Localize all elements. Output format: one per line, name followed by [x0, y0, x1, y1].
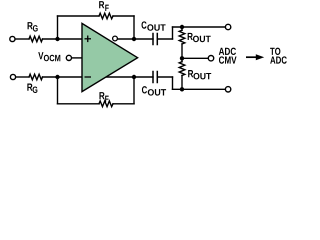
label ADC CMV	[219, 48, 237, 64]
label ROUT top	[188, 33, 211, 42]
wire	[43, 76, 83, 78]
wire	[181, 44, 183, 58]
wire bottom right rail	[173, 88, 226, 90]
wire to CMV terminal	[182, 57, 208, 59]
label VOCM	[38, 52, 60, 61]
output inversion bubble	[113, 36, 118, 41]
wire riser down	[172, 77, 174, 89]
wire top rail left	[58, 15, 100, 17]
input terminal bottom	[10, 74, 15, 79]
label RG bottom	[27, 84, 37, 93]
wire (junction to bottom rail)	[57, 77, 59, 104]
capacitor COUT bottom	[152, 72, 154, 83]
wire top right rail	[173, 26, 226, 28]
label RF bottom	[99, 92, 108, 102]
wire (top rail to output node)	[133, 16, 135, 39]
op-amp U1	[82, 23, 138, 91]
resistor RG bottom	[29, 74, 43, 80]
label RF top	[99, 1, 109, 11]
wire	[181, 58, 183, 61]
resistor RF bottom	[99, 101, 113, 107]
capacitor COUT top	[152, 34, 154, 45]
wire (junction to top rail)	[57, 16, 59, 39]
wire riser up	[172, 27, 174, 39]
node: -input/feedback junction bottom	[55, 75, 59, 79]
wire	[181, 76, 183, 90]
node: +input/feedback junction top	[55, 37, 59, 41]
node: top right rail	[180, 25, 184, 29]
ADC CMV terminal	[208, 56, 213, 61]
wire	[16, 76, 29, 78]
wire	[15, 38, 29, 40]
wire	[158, 38, 173, 40]
wire	[158, 76, 173, 78]
output terminal top right	[225, 24, 230, 29]
arrow to ADC	[246, 56, 256, 58]
pin -	[85, 76, 92, 78]
wire bottom rail left	[58, 103, 100, 105]
node: bottom right rail	[180, 87, 184, 91]
wire output top	[117, 38, 153, 40]
wire output bottom	[106, 76, 153, 78]
label COUT top	[142, 21, 166, 30]
VOCM terminal	[66, 55, 71, 60]
label ROUT bottom	[188, 70, 211, 79]
pin +	[85, 38, 92, 40]
wire bottom rail right	[113, 103, 134, 105]
resistor RF top	[99, 13, 113, 19]
resistor RG top	[29, 36, 43, 42]
wire	[43, 38, 83, 40]
wire top rail right	[113, 15, 134, 17]
wire (output node to bottom rail)	[133, 77, 135, 104]
label RG top	[28, 22, 38, 31]
input terminal top	[10, 36, 15, 41]
resistor ROUT top	[179, 30, 185, 44]
wire VOCM to amp	[72, 57, 82, 59]
label TO ADC	[270, 48, 287, 64]
output terminal bottom right	[225, 87, 230, 92]
wire	[181, 27, 183, 30]
node: output bottom	[132, 75, 136, 79]
resistor ROUT bottom	[179, 62, 185, 76]
label COUT bottom	[142, 86, 166, 95]
node: output top	[132, 37, 136, 41]
node: ADC CMV midpoint	[180, 56, 184, 60]
